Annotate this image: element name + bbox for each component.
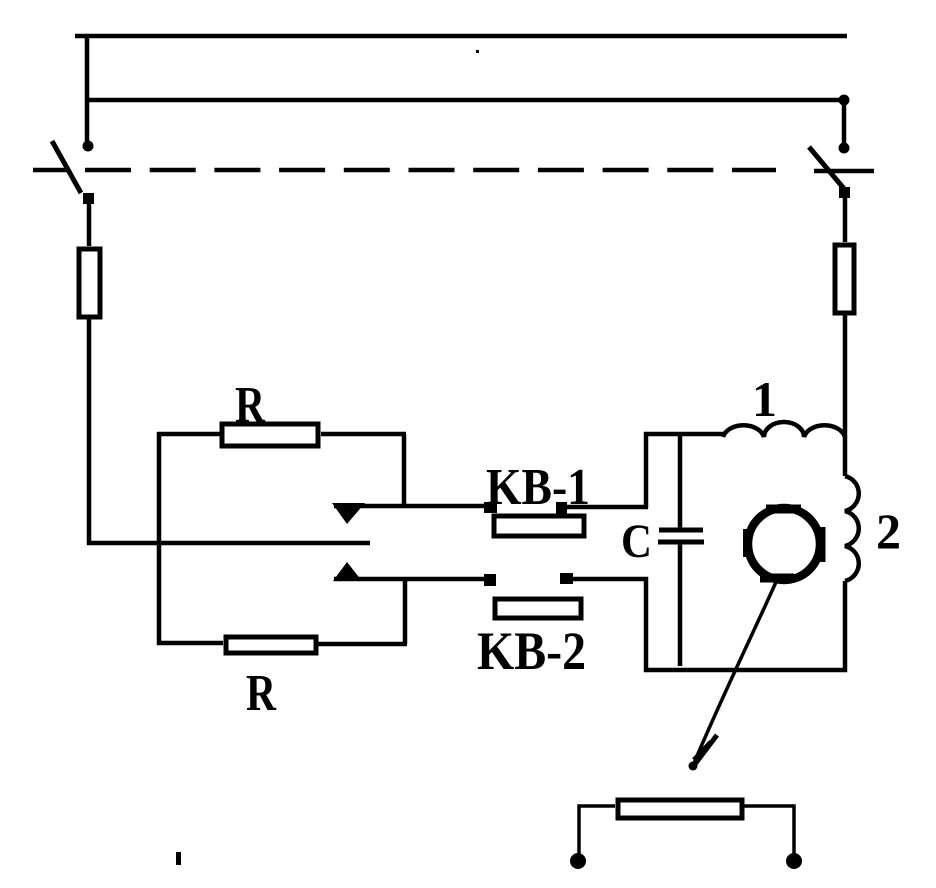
- wire second supply line L2: [87, 98, 845, 103]
- wire dashed boundary line first dash: [33, 168, 70, 173]
- svg-text:KB-2: KB-2: [477, 621, 586, 681]
- wire top loop left: [157, 432, 220, 437]
- wire dashed boundary right solid segment: [814, 169, 874, 174]
- wire upper contact line: [334, 504, 492, 509]
- node right switch upper pivot dot: [839, 143, 850, 154]
- switch QS1 blade (left): [52, 141, 81, 193]
- wire KB-2 right to box: [566, 577, 648, 582]
- wire top loop down: [402, 434, 407, 506]
- wire right drop from L2: [842, 100, 847, 144]
- wire load left lead: [579, 806, 615, 856]
- wire right vertical below winding 2: [843, 581, 848, 672]
- wire C branch left riser: [644, 432, 649, 508]
- inductor winding 2: [845, 476, 859, 581]
- capacitor C upper plate: [659, 528, 703, 533]
- wire right fuse down to winding: [843, 315, 848, 476]
- node KB-2 left contact dot: [484, 574, 496, 586]
- svg-text:R: R: [246, 665, 277, 722]
- wire left fuse down: [87, 319, 92, 545]
- svg-text:KB-1: KB-1: [486, 459, 590, 516]
- node KB-2 right contact dot: [560, 573, 573, 584]
- wire bottom loop right: [318, 642, 407, 647]
- inductor winding 1: [723, 422, 845, 437]
- wire lower loop riser: [403, 578, 408, 644]
- capacitor C branch upper lead: [678, 434, 683, 529]
- node load left terminal dot: [570, 853, 586, 869]
- relay contact KB-2 bar: [495, 599, 581, 618]
- capacitor C lower plate: [658, 540, 704, 545]
- motor M (rotor circle): [748, 508, 820, 580]
- wire common pole horizontal: [87, 541, 370, 546]
- stray ink speck bottom left: [176, 852, 181, 865]
- switch QS2 blade (right): [809, 147, 846, 191]
- node left switch upper pivot dot: [83, 141, 94, 152]
- annotation arrowhead tip blob: [689, 762, 698, 771]
- stray ink speck below top line: [476, 50, 479, 53]
- wire lower contact line: [334, 577, 492, 582]
- wire top loop right: [321, 432, 406, 437]
- motor M rim flat chunk left: [743, 529, 751, 557]
- wire KB-2 corner down: [644, 577, 649, 672]
- contact arrow upper (triangle): [332, 503, 365, 524]
- motor M rim flat chunk right: [817, 527, 826, 562]
- wire box left vertical: [157, 432, 162, 645]
- wire left drop from L1: [85, 36, 90, 142]
- wire motor box top: [644, 432, 724, 437]
- switch QS1 lower pivot square: [83, 193, 94, 204]
- node KB-1 left contact dot: [484, 502, 497, 513]
- resistor R (top): [222, 424, 318, 446]
- svg-text:R: R: [235, 377, 266, 434]
- node right corner dot on L2: [839, 95, 850, 106]
- contact arrow lower (triangle): [333, 562, 362, 581]
- node KB-1 right contact dot: [556, 502, 567, 514]
- wire left switch to fuse: [87, 203, 92, 246]
- svg-text:2: 2: [876, 503, 901, 559]
- relay contact KB-1 bar: [494, 516, 584, 536]
- node load right terminal dot: [786, 853, 802, 869]
- annotation arrow to load resistor: [692, 582, 776, 768]
- svg-text:1: 1: [752, 371, 777, 427]
- fuse FU1 (left): [79, 249, 100, 317]
- capacitor C lower lead: [678, 543, 683, 666]
- wire bottom loop left: [157, 641, 223, 646]
- wire right switch to fuse: [843, 198, 848, 242]
- resistor load (bottom): [618, 800, 742, 818]
- fuse FU2 (right): [835, 245, 854, 313]
- wire load right lead: [744, 806, 794, 854]
- wire KB-1 right to C branch: [560, 505, 648, 510]
- motor M rim flat chunk bottom: [760, 574, 794, 583]
- switch QS2 lower pivot square: [839, 187, 850, 198]
- wire dashed boundary line: [85, 168, 776, 173]
- svg-text:C: C: [621, 515, 652, 568]
- annotation arrowhead: [692, 735, 717, 768]
- wire motor box bottom: [644, 668, 847, 673]
- motor M rim flat chunk top: [766, 505, 801, 514]
- resistor R (bottom): [226, 637, 316, 653]
- wire top supply line L1: [75, 34, 847, 39]
